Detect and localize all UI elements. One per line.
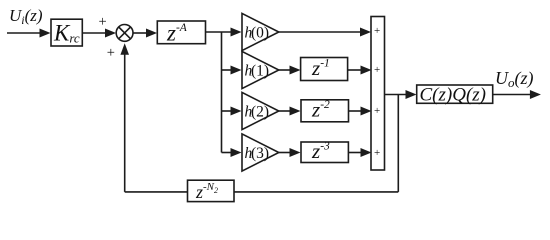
node branch vertical [221,32,223,153]
wire h(1) to z^-1 [279,66,301,75]
svg-text:(3): (3) [251,145,269,162]
label Ui(z) [9,6,43,27]
svg-text:z-A: z-A [166,21,188,46]
block Krc [51,19,82,46]
svg-text:C(z)Q(z): C(z)Q(z) [420,85,487,106]
wire h(0) to summer [279,28,371,37]
node feedback tap vertical [397,95,399,192]
wire z^-3 to summer [348,148,371,157]
wire input to Krc [7,29,51,38]
wire feedback up to summing junction [120,43,129,192]
wire summer to C(z)Q(z) [385,90,417,99]
svg-text:z-2: z-2 [311,98,330,122]
wire h(2) to z^-2 [279,107,301,116]
svg-text:(0): (0) [251,25,269,42]
svg-text:+: + [374,64,380,76]
svg-text:+: + [374,25,380,37]
label Uo(z) [495,68,534,90]
delay block z^-3 [301,139,348,163]
wire output [493,90,541,99]
summing junction X1 [116,25,133,42]
delay block z^-A [157,21,205,46]
svg-text:+: + [99,14,107,30]
summer block [371,17,385,171]
wire z^-A to node branch [206,28,242,37]
block C(z)Q(z) [417,85,493,106]
svg-text:(2): (2) [251,104,269,121]
wire Krc to summing junction [82,29,116,38]
wire h(3) to z^-3 [279,148,301,157]
wire branch to h(2) [222,107,242,116]
wire branch to h(1) [222,66,242,75]
svg-text:+: + [374,105,380,117]
gain h(3) [242,134,279,171]
svg-text:z-3: z-3 [311,139,330,163]
svg-text:Uo(z): Uo(z) [495,68,534,90]
svg-text:Ui(z): Ui(z) [9,6,43,27]
gain h(1) [242,51,279,88]
wire z^-1 to summer [348,66,372,75]
delay block z^-1 [301,56,348,81]
svg-text:(1): (1) [251,63,269,80]
delay block z^-2 [301,98,349,122]
plus sign upper input [99,14,107,30]
wire z^-2 to summer [349,107,372,116]
svg-text:z-1: z-1 [311,56,330,80]
plus sign lower input [107,45,115,61]
svg-text:+: + [374,147,380,159]
delay block z^-N2 [188,180,235,202]
svg-text:+: + [107,45,115,61]
svg-text:Krc: Krc [53,21,80,46]
wire feedback tap to z^-N2 [234,191,398,193]
wire summing junction to z^-A [133,29,157,38]
svg-text:z-N2: z-N2 [195,181,218,202]
gain h(2) [242,92,279,129]
wire z^-N2 to left corner [125,191,188,193]
gain h(0) [242,13,279,50]
wire branch to h(3) [222,148,242,157]
